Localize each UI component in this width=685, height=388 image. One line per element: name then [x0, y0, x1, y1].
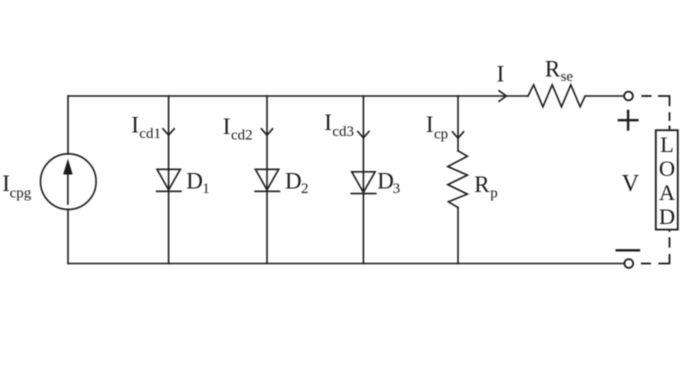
- dashed wire top vertical dash: [669, 112, 671, 121]
- svg-text:L: L: [660, 132, 674, 157]
- wire Rp branch upper: [457, 96, 459, 151]
- svg-text:I: I: [426, 112, 434, 137]
- diode D3 cathode bar: [351, 193, 375, 195]
- diode D3 triangle: [352, 172, 375, 193]
- resistor Rse zigzag: [528, 85, 585, 107]
- svg-text:cd3: cd3: [332, 124, 354, 140]
- wire diode branch 3: [362, 96, 364, 264]
- svg-text:cd2: cd2: [231, 127, 253, 143]
- resistor Rp zigzag: [448, 151, 468, 208]
- wire Rp branch lower: [457, 208, 459, 264]
- diode D2 triangle: [255, 169, 278, 190]
- dashed wire top corner dash: [658, 96, 670, 106]
- wire left branch upper: [67, 96, 69, 154]
- plus sign: [619, 119, 638, 121]
- svg-text:p: p: [490, 186, 498, 202]
- current arrow I chevron on top rail: [499, 91, 506, 102]
- terminal bottom circle: [624, 259, 633, 268]
- svg-text:cpg: cpg: [10, 185, 32, 201]
- current arrow Icp chevron: [452, 132, 463, 138]
- dashed wire top terminal to load: dash 1: [641, 95, 651, 97]
- dashed wire stub below load box: [669, 230, 671, 232]
- dashed wire bottom vertical dash: [669, 237, 671, 247]
- current arrow Icd3 chevron: [358, 132, 369, 138]
- wire top rail: [68, 95, 528, 97]
- svg-text:R: R: [474, 172, 490, 197]
- current source Icpg circle: [41, 154, 97, 210]
- current source arrow shaft: [67, 172, 69, 204]
- svg-text:I: I: [131, 113, 139, 138]
- wire top rail right of Rse: [585, 95, 624, 97]
- svg-text:D: D: [377, 169, 394, 194]
- current source arrow head: [63, 159, 73, 175]
- svg-text:2: 2: [301, 181, 309, 197]
- svg-text:se: se: [561, 69, 574, 85]
- wire diode branch 1: [168, 96, 170, 264]
- diode D1 triangle: [157, 169, 180, 190]
- wire diode branch 2: [266, 96, 268, 264]
- svg-text:cd1: cd1: [139, 126, 161, 142]
- svg-text:I: I: [324, 110, 332, 135]
- wire bottom rail: [68, 263, 625, 265]
- svg-text:I: I: [497, 61, 505, 86]
- svg-text:cp: cp: [434, 126, 448, 142]
- svg-text:D: D: [659, 204, 675, 229]
- load box: [656, 130, 678, 229]
- svg-text:V: V: [622, 171, 640, 197]
- svg-text:I: I: [223, 114, 231, 139]
- current arrow Icd2 chevron: [261, 129, 272, 135]
- svg-text:R: R: [545, 57, 561, 82]
- current arrow Icd1 chevron: [163, 129, 174, 135]
- svg-text:A: A: [659, 180, 676, 205]
- diode D1 cathode bar: [157, 190, 181, 192]
- dashed wire dash into load box top: [669, 126, 671, 131]
- svg-text:D: D: [186, 168, 203, 193]
- wire left branch lower: [67, 209, 69, 263]
- svg-text:O: O: [659, 156, 675, 181]
- svg-text:1: 1: [202, 181, 210, 197]
- svg-text:D: D: [285, 168, 302, 193]
- svg-text:3: 3: [393, 181, 401, 197]
- diode D2 cathode bar: [255, 190, 279, 192]
- dashed wire bottom corner dash: [658, 254, 669, 264]
- minus sign: [617, 249, 639, 251]
- terminal top circle: [624, 92, 633, 101]
- dashed wire bottom dash to terminal: [641, 263, 651, 265]
